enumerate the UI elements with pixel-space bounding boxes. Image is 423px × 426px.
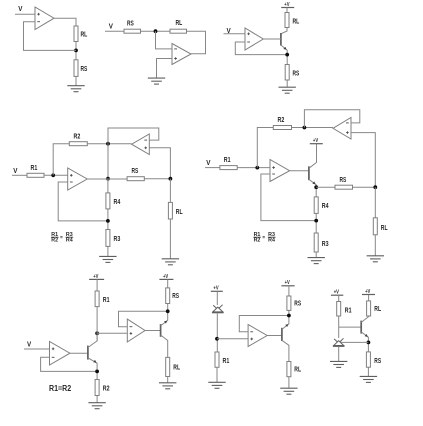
svg-text:RL: RL [173, 365, 180, 372]
svg-text:RL: RL [176, 209, 183, 216]
svg-text:V: V [109, 23, 113, 30]
svg-text:RS: RS [293, 71, 300, 78]
svg-text:V: V [13, 168, 17, 175]
svg-text:RS: RS [294, 300, 301, 307]
svg-text:V: V [27, 341, 31, 348]
svg-text:RS: RS [340, 177, 347, 184]
svg-text:R2: R2 [103, 385, 110, 392]
svg-text:R1: R1 [103, 297, 110, 304]
svg-text:V: V [18, 6, 22, 13]
svg-text:RL: RL [294, 366, 301, 373]
svg-text:V: V [206, 160, 210, 167]
svg-text:R1: R1 [223, 358, 230, 365]
svg-text:R4: R4 [268, 238, 275, 244]
svg-text:R2: R2 [278, 117, 285, 124]
svg-text:=: = [60, 235, 63, 241]
svg-text:RS: RS [132, 168, 139, 175]
svg-text:R3: R3 [114, 236, 121, 243]
svg-text:RL: RL [293, 19, 300, 26]
svg-text:R1=R2: R1=R2 [49, 384, 72, 393]
svg-text:R4: R4 [114, 199, 121, 206]
svg-text:R1: R1 [31, 165, 38, 172]
svg-text:RL: RL [374, 306, 381, 313]
svg-text:RS: RS [127, 21, 134, 28]
svg-text:RS: RS [172, 293, 179, 300]
svg-text:R2: R2 [74, 133, 81, 140]
svg-text:RL: RL [81, 32, 88, 39]
svg-text:RL: RL [176, 20, 183, 27]
svg-text:R1: R1 [224, 157, 231, 164]
svg-text:R4: R4 [322, 203, 329, 210]
svg-text:R1: R1 [345, 307, 352, 314]
svg-text:RL: RL [381, 225, 388, 232]
svg-text:=: = [262, 235, 265, 241]
svg-text:RS: RS [374, 358, 381, 365]
svg-text:RS: RS [81, 66, 88, 73]
svg-text:R3: R3 [322, 241, 329, 248]
svg-text:R2: R2 [254, 238, 261, 244]
svg-text:R4: R4 [66, 238, 73, 244]
svg-text:R2: R2 [51, 238, 58, 244]
